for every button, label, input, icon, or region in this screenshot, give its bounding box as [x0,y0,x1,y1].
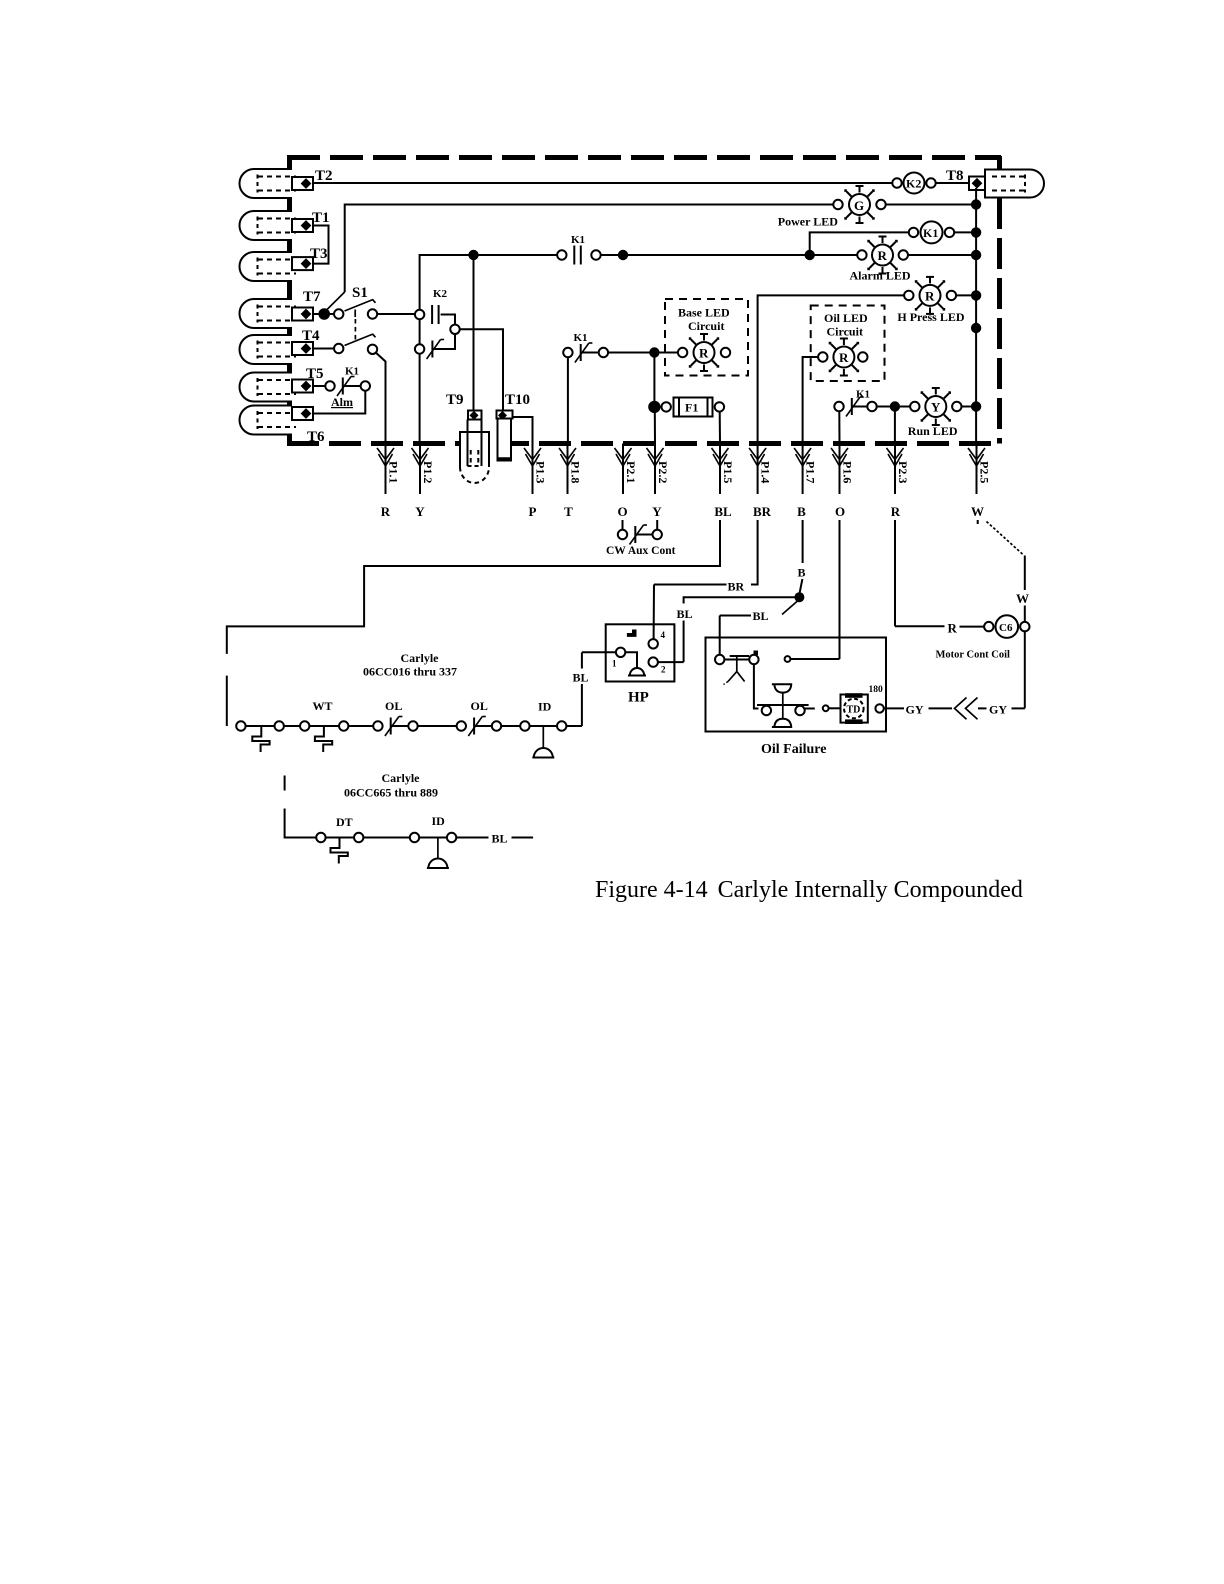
svg-text:P2.1: P2.1 [624,461,638,483]
wire Power LED row [345,205,976,293]
svg-text:T8: T8 [946,168,964,184]
wire W run to coil [978,520,1029,622]
svg-text:T7: T7 [303,289,321,305]
svg-text:BL: BL [492,832,508,846]
svg-text:Circuit: Circuit [827,325,863,339]
wire B run to junction [798,520,806,593]
box Oil Failure [706,638,887,758]
svg-text:BL: BL [753,609,769,623]
svg-text:K2: K2 [433,288,448,300]
wire GY with disconnect chevrons [906,631,1025,719]
svg-text:Base LED: Base LED [678,306,730,320]
junction node bus run row [971,401,981,411]
terminal T8 [946,168,1044,198]
svg-text:Run LED: Run LED [908,424,958,438]
svg-text:T6: T6 [307,429,325,445]
svg-text:T10: T10 [505,392,530,408]
svg-text:P: P [529,504,537,519]
svg-text:P1.8: P1.8 [569,461,583,483]
svg-text:G: G [854,198,864,213]
svg-text:Alarm LED: Alarm LED [850,269,911,283]
junction node B net [794,592,804,602]
svg-text:BL: BL [573,671,589,685]
svg-text:T9: T9 [446,392,464,408]
svg-text:P1.3: P1.3 [534,461,548,483]
svg-text:R: R [381,504,391,519]
junction node P2.1 drop [618,250,628,260]
svg-text:P2.5: P2.5 [978,461,992,483]
connector exit P1.5 wire BL [712,444,736,520]
svg-text:R: R [891,504,901,519]
svg-text:T2: T2 [315,168,333,184]
enclosure top border (dashed) [287,155,1001,160]
wire base junction down to fuse [653,357,655,401]
lamp G Power LED [778,186,886,229]
svg-text:T: T [564,504,573,519]
junction node at T9 drop [468,250,478,260]
svg-text:P1.1: P1.1 [387,461,401,483]
terminal T6 [240,406,326,446]
junction node base lamp [649,347,659,357]
svg-text:Y: Y [415,504,425,519]
junction node bus hpress row [971,290,981,300]
connector exit P2.2 wire Y [647,444,671,520]
wire fuse left down to P2.2 [654,412,656,444]
svg-text:P1.2: P1.2 [421,461,435,483]
wire T6 to Alm contact [313,391,365,414]
lamp R Alarm LED [850,237,911,283]
svg-text:DT: DT [336,815,353,829]
connector exit P1.7 wire B [794,444,818,520]
oil pressure contact in box [715,651,840,685]
svg-text:Motor Cont Coil: Motor Cont Coil [936,650,1011,661]
svg-text:S1: S1 [352,285,368,301]
Carlyle circuit row 1 label [363,651,457,679]
connector exit P2.5 wire W [968,444,992,520]
connector exit P1.1 wire R [377,444,401,520]
connector exit P2.1 wire O [615,444,639,520]
connector exit P1.4 wire BR [749,444,773,520]
enclosure right border (dashed) [997,156,1002,444]
svg-text:06CC016 thru 337: 06CC016 thru 337 [363,665,457,679]
junction node bus alarm row [971,250,981,260]
junction node bus mid [971,323,981,333]
svg-text:OL: OL [471,699,488,713]
junction node bus power row [971,199,981,209]
junction node K1 coil drop [805,250,815,260]
aux contact CW (NC) below connector [606,520,676,557]
svg-text:P1.6: P1.6 [841,461,855,483]
enclosure left border (solid segments between terminals) [287,155,292,444]
wire R run to coil [895,520,984,636]
svg-text:T1: T1 [312,210,330,226]
svg-text:T3: T3 [310,246,328,262]
svg-text:BR: BR [753,504,772,519]
relay contact K2 (NC lower) [415,320,455,444]
relay contact K1 (NC) base led feed [563,332,608,444]
wire jumper T1 to T3 [313,226,329,264]
wire K1 to base lamp junction [608,352,678,354]
svg-text:R: R [699,346,709,361]
svg-text:K1: K1 [856,389,870,401]
connector exit P1.6 wire O [831,444,855,520]
svg-text:BL: BL [677,607,693,621]
test point T9 [446,260,489,483]
svg-text:GY: GY [989,703,1007,717]
svg-text:R: R [878,248,888,263]
relay contact K2 (NO upper) [415,288,455,325]
lamp R Base LED [678,334,730,371]
svg-text:O: O [835,504,845,519]
svg-text:R: R [839,350,849,365]
wire T2 row to K2 coil [313,182,893,184]
wire BL long run to Carlyle row [227,520,720,726]
terminal T2 [240,168,333,198]
svg-text:K1: K1 [571,234,585,246]
terminal T7 [240,289,322,328]
relay contact K1 (NC) run row [834,389,876,444]
svg-text:K1: K1 [923,226,938,240]
svg-text:ID: ID [538,700,552,714]
svg-text:GY: GY [906,703,924,717]
svg-text:R: R [948,621,958,636]
svg-text:O: O [617,504,627,519]
wire K2 coil to T8 [936,182,969,184]
wire HP pin1 to Carlyle row [573,652,589,726]
svg-text:OL: OL [385,699,402,713]
connector exit P1.8 wire T [559,444,583,520]
relay coil K1 [909,221,976,243]
switch S1 [313,285,415,444]
enclosure bottom border (dashed) [287,441,1000,446]
wire B junction to oil failure box [720,601,798,655]
svg-text:W: W [1016,591,1029,606]
svg-text:Y: Y [652,504,662,519]
svg-text:K1: K1 [574,332,588,344]
node K2 contacts common [450,325,503,411]
svg-text:CW Aux Cont: CW Aux Cont [606,545,676,557]
relay contact K1 (NO) main row [557,234,601,265]
wire tap to row 2 [285,776,317,838]
time delay contact assembly [754,664,841,727]
svg-text:TD: TD [847,705,861,716]
lamp R H Press LED [897,277,964,324]
svg-text:Figure 4-14Carlyle Internally: Figure 4-14Carlyle Internally Compounded [595,877,1023,903]
svg-text:4: 4 [661,630,666,640]
svg-text:BR: BR [728,580,745,594]
svg-text:06CC665 thru 889: 06CC665 thru 889 [344,786,438,800]
svg-text:P1.7: P1.7 [804,461,818,483]
relay contact K1 Alm (NC) [313,366,370,410]
svg-text:Carlyle: Carlyle [401,651,440,665]
connector exit P2.3 wire R [887,444,911,520]
wire run row [877,407,976,444]
wire B junction to HP pin2 [658,597,799,662]
svg-text:P1.4: P1.4 [759,461,773,483]
motor contactor coil C [936,615,1030,660]
wire main control row [420,255,977,315]
Carlyle circuit row 2 label [344,771,438,800]
junction node bus K1 coil row [971,227,981,237]
svg-text:P2.2: P2.2 [656,461,670,483]
svg-text:Alm: Alm [331,395,353,409]
terminal T4 [240,328,321,364]
pressure switch HP box [582,624,675,705]
svg-text:ID: ID [432,814,446,828]
svg-text:K1: K1 [345,366,359,378]
svg-text:T4: T4 [302,328,320,344]
svg-text:H Press LED: H Press LED [897,310,964,324]
svg-text:R: R [925,289,935,304]
Carlyle row2 contacts [316,814,533,868]
connector exit P1.2 wire Y [412,444,436,520]
svg-text:B: B [797,504,806,519]
svg-text:P2.3: P2.3 [896,461,910,483]
svg-text:W: W [971,504,984,519]
lamp Y Run LED [908,388,962,438]
lamp R Oil LED [818,339,867,376]
connector exit P1.3 wire P [524,444,548,520]
svg-text:C6: C6 [999,622,1013,634]
wire BR run to HP pin4 [654,520,758,639]
wire fuse right down to P1.5 [719,412,721,444]
svg-text:T5: T5 [306,366,324,382]
svg-text:Carlyle: Carlyle [382,771,421,785]
terminal T1 [240,210,330,240]
test point T10 [497,392,533,461]
svg-text:Power LED: Power LED [778,215,838,229]
svg-text:BL: BL [714,504,732,519]
svg-text:HP: HP [628,690,649,706]
svg-text:Oil LED: Oil LED [824,311,868,325]
junction node run row [890,401,900,411]
terminal T3 [240,246,328,281]
svg-text:Y: Y [931,400,941,415]
wire K1 coil branch [810,232,909,255]
svg-text:Circuit: Circuit [688,319,724,333]
relay coil K2 [892,173,935,194]
dashed box Oil LED Circuit [811,306,885,382]
svg-text:K2: K2 [906,177,921,191]
wire O exit into oil box [839,520,841,659]
terminal T5 [240,366,324,402]
svg-text:P1.5: P1.5 [721,461,735,483]
dashed box Base LED Circuit [665,299,748,376]
right vertical bus [975,188,977,444]
svg-text:2: 2 [661,665,666,675]
fuse F1 [649,398,724,417]
svg-text:Oil Failure: Oil Failure [761,742,826,757]
svg-text:1: 1 [612,659,617,669]
svg-text:F1: F1 [685,401,698,415]
Carlyle row1 contacts [236,699,582,758]
wire H Press LED row [758,295,977,443]
svg-text:180: 180 [869,685,884,695]
svg-text:B: B [798,566,806,580]
wire oil lamp to P1.7 [803,357,819,444]
svg-text:WT: WT [313,699,333,713]
timer TD [841,685,905,724]
